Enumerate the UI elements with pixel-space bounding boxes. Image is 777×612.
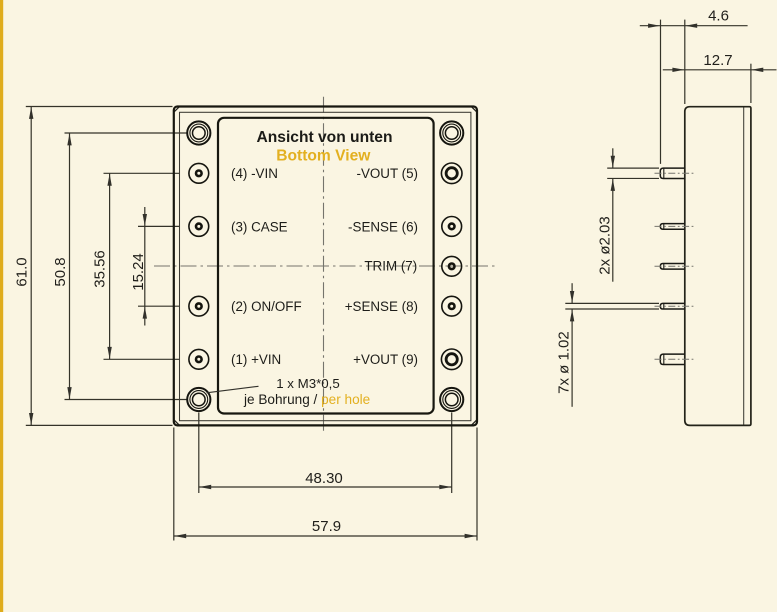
svg-text:(4) -VIN: (4) -VIN — [231, 166, 278, 181]
svg-text:7x ø 1.02: 7x ø 1.02 — [555, 331, 572, 394]
svg-text:15.24: 15.24 — [130, 253, 147, 291]
svg-text:4.6: 4.6 — [708, 7, 729, 24]
svg-text:(1) +VIN: (1) +VIN — [231, 352, 281, 367]
svg-text:(3) CASE: (3) CASE — [231, 219, 288, 234]
svg-text:je Bohrung / per hole: je Bohrung / per hole — [243, 392, 370, 407]
svg-text:12.7: 12.7 — [703, 52, 732, 69]
svg-text:Bottom View: Bottom View — [276, 147, 371, 164]
svg-text:TRIM (7): TRIM (7) — [364, 258, 417, 273]
svg-text:Ansicht von unten: Ansicht von unten — [256, 129, 392, 146]
svg-text:-VOUT (5): -VOUT (5) — [357, 166, 419, 181]
svg-text:35.56: 35.56 — [92, 250, 109, 288]
svg-text:-SENSE (6): -SENSE (6) — [348, 219, 418, 234]
svg-text:+SENSE (8): +SENSE (8) — [345, 299, 418, 314]
svg-text:48.30: 48.30 — [305, 470, 343, 487]
svg-text:2x ø2.03: 2x ø2.03 — [596, 216, 613, 274]
svg-text:+VOUT (9): +VOUT (9) — [353, 352, 418, 367]
svg-text:50.8: 50.8 — [52, 257, 69, 286]
svg-text:1 x M3*0,5: 1 x M3*0,5 — [276, 376, 340, 391]
svg-text:61.0: 61.0 — [14, 257, 31, 286]
svg-text:57.9: 57.9 — [312, 518, 341, 535]
svg-text:(2) ON/OFF: (2) ON/OFF — [231, 299, 302, 314]
